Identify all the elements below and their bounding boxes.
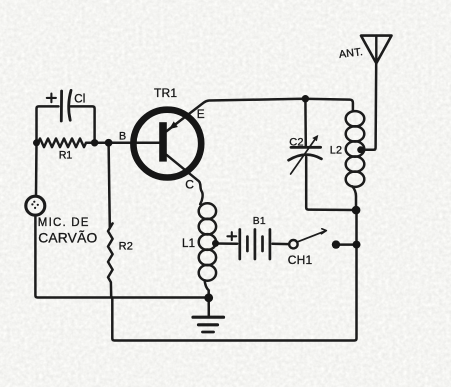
svg-text:R1: R1 xyxy=(59,149,72,161)
svg-text:C2: C2 xyxy=(289,137,304,149)
svg-text:E: E xyxy=(197,107,205,121)
svg-text:MIC. DE: MIC. DE xyxy=(38,217,90,229)
svg-text:CARVÃO: CARVÃO xyxy=(38,229,97,245)
svg-text:B: B xyxy=(119,130,126,142)
svg-text:C: C xyxy=(185,178,194,192)
svg-text:L2: L2 xyxy=(330,145,342,157)
svg-text:B1: B1 xyxy=(253,216,266,227)
svg-text:R2: R2 xyxy=(119,241,133,253)
svg-text:Cl: Cl xyxy=(74,94,85,106)
svg-text:TR1: TR1 xyxy=(154,86,177,100)
svg-text:L1: L1 xyxy=(182,238,195,250)
svg-text:CH1: CH1 xyxy=(288,253,313,267)
